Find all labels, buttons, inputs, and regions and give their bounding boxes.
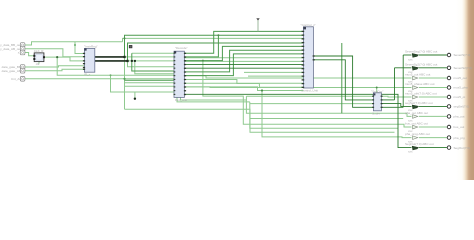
svg-text:x1: x1: [18, 51, 22, 55]
svg-text:xxx: xxx: [408, 149, 413, 153]
svg-text:SegOut(7:0): SegOut(7:0): [454, 146, 471, 150]
svg-text:Dec_unit: Dec_unit: [175, 98, 187, 102]
svg-text:xxx: xxx: [408, 129, 413, 133]
svg-text:"InstrReg": "InstrReg": [84, 45, 98, 49]
svg-text:xxx: xxx: [408, 139, 413, 143]
svg-text:mux5_ot: mux5_ot: [454, 95, 466, 99]
svg-text:S_drv: S_drv: [372, 112, 380, 116]
svg-text:CLK_R: CLK_R: [34, 49, 45, 53]
svg-text:Control_Unit: Control_Unit: [301, 89, 318, 93]
svg-text:SevenS2(7:0): SevenS2(7:0): [454, 66, 473, 70]
svg-text:SevenSeg(7:0) ABC out: SevenSeg(7:0) ABC out: [405, 50, 438, 54]
svg-text:pha_prg: pha_prg: [454, 136, 465, 140]
svg-text:data_gate_AB: data_gate_AB: [2, 69, 21, 73]
svg-text:"SegDrv": "SegDrv": [371, 90, 383, 94]
svg-text:xxx: xxx: [408, 57, 413, 61]
svg-text:xxx: xxx: [408, 108, 413, 112]
svg-text:"Decode": "Decode": [175, 46, 188, 50]
svg-text:mux5_out: mux5_out: [454, 76, 468, 80]
svg-text:Cnt_Ax: Cnt_Ax: [11, 77, 21, 81]
svg-text:SevenSg2(7:0) ABC out: SevenSg2(7:0) ABC out: [405, 62, 438, 66]
svg-text:mux5_pha: mux5_pha: [454, 86, 469, 90]
svg-text:xxx: xxx: [408, 99, 413, 103]
svg-text:"Control_x": "Control_x": [301, 23, 316, 27]
svg-text:IR_x: IR_x: [84, 73, 91, 77]
svg-text:xxx: xxx: [408, 70, 413, 74]
svg-text:pha_out: pha_out: [454, 115, 465, 119]
svg-text:xxx: xxx: [408, 118, 413, 122]
svg-text:segSel(7:0): segSel(7:0): [454, 105, 470, 109]
svg-text:bus_out: bus_out: [454, 125, 465, 129]
svg-text:xxx: xxx: [408, 89, 413, 93]
svg-text:SevenS(7:0): SevenS(7:0): [454, 53, 471, 57]
svg-text:clk: clk: [36, 62, 40, 66]
svg-text:xxx: xxx: [408, 80, 413, 84]
